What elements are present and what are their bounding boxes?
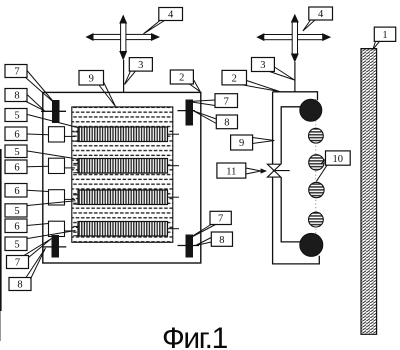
- leader 11: [246, 168, 261, 174]
- box 8 top-right: [216, 115, 237, 129]
- svg-text:3: 3: [138, 60, 143, 71]
- arrowhead right: [322, 33, 331, 41]
- box 2 right: [222, 70, 247, 85]
- sample sphere 10 #2: [309, 155, 324, 170]
- box 8 bottom-right: [211, 232, 232, 246]
- RIGHT APPARATUS duct outline: [273, 92, 320, 264]
- leader 3 right: [270, 67, 295, 80]
- leader 5 #3: [28, 201, 76, 206]
- box 1: [374, 27, 395, 41]
- leader 8 bottom-left: [26, 248, 46, 279]
- arrowhead left: [256, 33, 264, 41]
- svg-text:8: 8: [17, 280, 22, 291]
- svg-text:6: 6: [14, 163, 19, 174]
- vertical feed line 3 right: [294, 62, 296, 92]
- svg-text:7: 7: [14, 67, 19, 78]
- leader 10: [316, 159, 327, 182]
- electrode 8 bottom-right: [186, 235, 194, 258]
- box 2 left: [170, 70, 193, 84]
- box 5 #1: [5, 109, 27, 122]
- terminal box 6 #4: [49, 221, 65, 236]
- leader 2 right: [243, 81, 280, 92]
- svg-text:6: 6: [14, 222, 19, 233]
- box 5 #3: [5, 204, 27, 217]
- vertical feed line 3 left: [123, 60, 125, 92]
- svg-text:5: 5: [14, 147, 19, 158]
- leader 7 top-right: [189, 100, 216, 106]
- svg-text:5: 5: [14, 111, 19, 122]
- fan dark circle bottom: [300, 233, 323, 256]
- BOX DIGITS: [14, 9, 387, 291]
- valve 11 hourglass: [267, 164, 289, 177]
- CALLOUT BOXES top and right: [79, 7, 396, 246]
- svg-text:7: 7: [15, 258, 20, 269]
- leader 8 bottom-right: [196, 238, 212, 246]
- box 6 #3: [5, 184, 27, 198]
- svg-text:10: 10: [333, 154, 344, 165]
- vertical shaft: [121, 23, 126, 53]
- svg-text:8: 8: [224, 118, 229, 129]
- svg-text:3: 3: [260, 60, 265, 71]
- WALL 1 hatched strip: [361, 49, 377, 335]
- leader 6 #4: [27, 224, 49, 226]
- leader 6 #1: [27, 133, 49, 136]
- leader 8 upper-left: [25, 95, 45, 111]
- svg-text:2: 2: [232, 73, 237, 84]
- svg-text:Фиг.1: Фиг.1: [162, 322, 228, 350]
- arrowhead up: [291, 14, 299, 23]
- leader 5 #4: [28, 231, 76, 239]
- svg-text:7: 7: [224, 96, 229, 107]
- svg-text:8: 8: [219, 235, 224, 246]
- heater leads row3: [65, 195, 79, 204]
- leader 2 left: [190, 80, 201, 92]
- leader 4 right: [303, 20, 315, 31]
- leader 5 #1: [28, 115, 78, 128]
- terminal box 6 #1: [49, 127, 65, 142]
- wire 7 bottom-left: [44, 246, 67, 248]
- left page-edge artifact: [0, 149, 2, 311]
- heater right stubs: [168, 134, 180, 229]
- RIGHT CROSS ARROWS 4: [264, 22, 324, 55]
- LEADER LINES: [24, 20, 380, 279]
- svg-text:11: 11: [226, 166, 236, 177]
- leader 4 left: [144, 21, 165, 34]
- box 7 bottom-left: [7, 256, 29, 269]
- box 5 #4: [5, 237, 27, 251]
- heater bar 5 #4: [78, 222, 168, 237]
- svg-text:6: 6: [14, 186, 19, 197]
- svg-text:6: 6: [14, 130, 19, 141]
- box 6 #2: [5, 160, 27, 174]
- box 7 top-right: [215, 94, 238, 108]
- electrode 8 top-left: [52, 100, 60, 123]
- heater bar 5 #3: [78, 190, 168, 205]
- arrowhead down: [291, 54, 299, 63]
- valve pointer arrowhead: [261, 168, 267, 173]
- box 6 #4: [5, 219, 27, 233]
- horizontal shaft: [264, 35, 324, 40]
- heater bar 5 #1: [78, 127, 168, 142]
- svg-text:4: 4: [168, 10, 174, 21]
- leader 7 top-left: [25, 71, 55, 104]
- leader 7 bottom-right: [187, 225, 216, 240]
- svg-text:2: 2: [179, 73, 184, 84]
- box 11: [217, 163, 246, 178]
- vessel outer rectangle 2: [43, 92, 201, 263]
- box 6 #1: [5, 127, 27, 141]
- box 4 left: [159, 8, 183, 21]
- box 5 #2: [5, 145, 27, 158]
- leader 9 left: [99, 82, 116, 107]
- svg-text:5: 5: [14, 240, 19, 251]
- arrowhead down: [119, 51, 127, 61]
- leader 5 #2: [28, 151, 78, 159]
- arrowhead up: [119, 15, 127, 24]
- LEFT CROSS ARROWS 4: [93, 23, 153, 53]
- terminal box 6 #2: [49, 158, 65, 173]
- box 3 right: [252, 58, 275, 72]
- box 8 upper-left: [5, 89, 27, 102]
- box 10: [326, 151, 351, 165]
- svg-text:4: 4: [318, 9, 324, 20]
- svg-text:8: 8: [14, 91, 19, 102]
- heater leads row1: [65, 132, 79, 141]
- leader 8 top-right: [194, 111, 217, 124]
- box 9 left: [79, 71, 104, 86]
- heater bar 5 #2: [78, 159, 168, 174]
- heater leads row4: [65, 226, 79, 235]
- liquid bath (dotted) 9: [72, 107, 173, 242]
- CALLOUT BOXES left column: [5, 65, 31, 291]
- fan dark circle top: [300, 99, 322, 121]
- box 9 right: [231, 135, 253, 150]
- svg-text:5: 5: [14, 206, 19, 217]
- box 8 bottom-left: [9, 278, 31, 291]
- horizontal shaft: [93, 34, 153, 39]
- svg-text:7: 7: [218, 214, 223, 225]
- wire 7 top-left: [41, 110, 66, 112]
- dotted axis through spheres: [315, 99, 317, 257]
- leader 6 #2: [27, 165, 49, 168]
- wire 7 bottom-right: [178, 245, 200, 247]
- arrowhead left: [86, 33, 94, 41]
- box 7 bottom-right: [210, 211, 231, 224]
- terminal box 6 #3: [49, 190, 65, 205]
- leader 1: [373, 41, 380, 49]
- svg-text:1: 1: [382, 30, 387, 41]
- electrode 8 top-right: [186, 100, 194, 126]
- wire 7 top-right: [178, 110, 196, 112]
- svg-text:9: 9: [239, 138, 244, 149]
- leader 9 right: [253, 138, 275, 144]
- sample sphere 10 #1: [309, 128, 324, 143]
- box 3 left: [129, 58, 152, 72]
- box 7 top-left: [5, 65, 27, 78]
- leader 7 bottom-left: [24, 239, 52, 258]
- arrowhead right: [151, 33, 160, 41]
- sample sphere 10 #4: [309, 212, 324, 227]
- heater leads row2: [65, 163, 79, 172]
- svg-text:9: 9: [89, 74, 94, 85]
- electrode 8 bottom-left: [52, 235, 60, 258]
- leader 3 left: [125, 71, 136, 84]
- vertical shaft: [292, 22, 297, 55]
- box 4 right: [309, 7, 333, 20]
- sample sphere 10 #3: [309, 182, 324, 197]
- leader 6 #3: [27, 190, 49, 191]
